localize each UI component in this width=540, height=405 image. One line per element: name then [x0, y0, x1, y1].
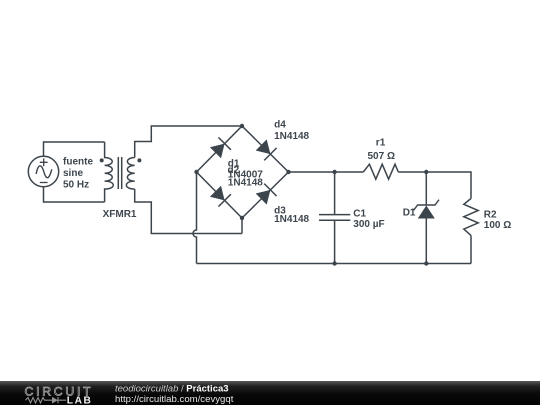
transformer XFMR1 core: [118, 157, 121, 189]
voltage source V1 (fuente): [28, 156, 58, 186]
zener diode D1: [414, 172, 439, 264]
svg-text:300 µF: 300 µF: [353, 219, 384, 230]
svg-text:r1: r1: [376, 138, 386, 149]
svg-text:C1: C1: [353, 209, 366, 220]
svg-text:LAB: LAB: [67, 396, 93, 405]
diode d2 1N4148 (bridge bottom-left): [197, 172, 243, 218]
svg-text:sine: sine: [63, 168, 83, 179]
svg-text:1N4148: 1N4148: [274, 131, 309, 142]
junction dot bridge bottom vertex: [240, 216, 244, 220]
transformer XFMR1 secondary polarity dot: [137, 158, 141, 162]
svg-text:1N4148: 1N4148: [274, 214, 309, 225]
svg-text:1N4148: 1N4148: [228, 177, 263, 188]
svg-text:XFMR1: XFMR1: [103, 209, 137, 220]
diode d1 1N4007 (bridge top-left): [197, 126, 243, 172]
wire source loop top: [44, 142, 105, 156]
svg-text:50 Hz: 50 Hz: [63, 180, 89, 191]
svg-text:R2: R2: [484, 209, 497, 220]
svg-text:fuente: fuente: [63, 156, 93, 167]
wire r1 to R2 top: [398, 172, 471, 199]
svg-text:teodiocircuitlab / Práctica3: teodiocircuitlab / Práctica3: [115, 383, 229, 394]
transformer XFMR1 primary polarity dot: [100, 158, 104, 162]
junction dot bridge left vertex: [194, 170, 198, 174]
resistor R2: [464, 199, 478, 236]
transformer XFMR1 secondary winding: [126, 158, 134, 190]
wire bottom rail: [197, 263, 472, 265]
footer bar: [0, 381, 540, 405]
wire source loop bottom: [44, 187, 105, 202]
wire secondary bottom jog: [135, 189, 242, 234]
wire secondary top to bridge top: [135, 126, 242, 158]
diode d4 1N4148 (bridge top-right): [242, 126, 289, 172]
resistor r1: [363, 164, 398, 179]
wire bridge right to r1: [289, 171, 364, 173]
junction dot bridge top vertex: [240, 124, 244, 128]
svg-text:D1: D1: [403, 207, 416, 218]
junction dot C1 top: [332, 170, 336, 174]
transformer XFMR1 primary winding: [105, 142, 114, 202]
wire R2 bottom: [470, 235, 472, 263]
CircuitLab logo symbol (resistor + diode): [26, 397, 67, 404]
junction dot D1 top: [424, 170, 428, 174]
junction dot C1 bottom: [332, 261, 336, 265]
junction dot D1 bottom: [424, 261, 428, 265]
svg-text:507 Ω: 507 Ω: [368, 151, 395, 162]
junction dot bridge right vertex: [286, 170, 290, 174]
svg-text:http://circuitlab.com/cevygqt: http://circuitlab.com/cevygqt: [115, 394, 234, 405]
diode d3 1N4148 (bridge bottom-right): [242, 172, 289, 218]
svg-text:100 Ω: 100 Ω: [484, 220, 511, 231]
wire bridge left down with hop over: [193, 172, 196, 264]
wire bridge bottom stub: [241, 218, 243, 234]
svg-text:d4: d4: [274, 119, 286, 130]
capacitor C1: [319, 172, 350, 264]
